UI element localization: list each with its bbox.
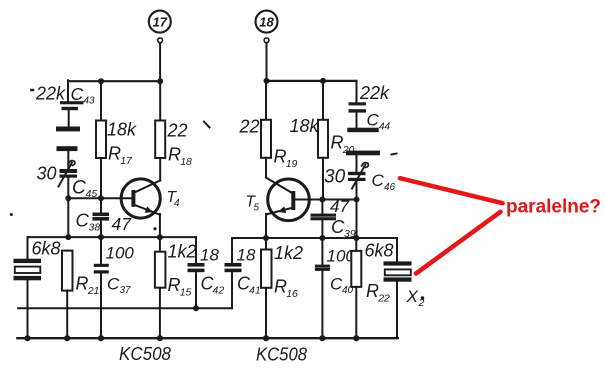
capacitor C44 <box>349 102 367 112</box>
svg-text:39: 39 <box>344 228 356 240</box>
svg-text:R: R <box>366 281 379 301</box>
node rail C37 <box>98 335 104 341</box>
svg-text:47: 47 <box>330 197 349 216</box>
label R22 <box>366 281 390 305</box>
label T5 <box>246 194 260 214</box>
label C41 <box>237 274 261 297</box>
node T4 emitter / R15 <box>157 234 163 240</box>
svg-text:44: 44 <box>379 122 391 133</box>
stray dot left <box>10 213 13 216</box>
svg-text:37: 37 <box>120 285 132 296</box>
capacitor C41 <box>225 238 242 308</box>
crystal X1 <box>14 237 42 338</box>
capacitor C40 <box>315 238 330 338</box>
resistor R19 <box>261 81 271 178</box>
capacitor (unlabeled, series) left <box>56 127 80 152</box>
node T5 emitter / R16 <box>263 235 269 241</box>
capacitor C38 <box>93 198 110 237</box>
label R17 <box>108 144 133 168</box>
transistor T4 <box>121 179 160 218</box>
svg-text:KC508: KC508 <box>256 345 307 365</box>
svg-text:15: 15 <box>180 287 192 299</box>
node junction terminal18/R19 <box>264 78 270 84</box>
wire terminal18 to top rail <box>266 43 268 81</box>
wire right column top <box>356 81 358 103</box>
svg-text:17: 17 <box>120 155 133 167</box>
svg-text:18: 18 <box>200 246 219 265</box>
svg-text:41: 41 <box>249 285 261 297</box>
wire C45 to base node <box>67 178 69 198</box>
wire right column to emitter line <box>356 181 358 238</box>
node R20 bottom / C39 top <box>319 197 325 203</box>
wire left top rail <box>68 80 160 82</box>
label X2 <box>406 287 425 309</box>
svg-text:22k: 22k <box>35 84 66 104</box>
wire between C43 and cap2 <box>68 110 70 126</box>
svg-text:C: C <box>367 111 380 130</box>
resistor R18 <box>155 81 165 180</box>
label R15 <box>168 275 192 299</box>
node rail C40 <box>319 335 325 341</box>
label R21 <box>76 274 100 298</box>
wire bottom rail <box>17 337 397 339</box>
node base line right corner <box>354 197 360 203</box>
wire between C44 and cap2 right <box>356 113 358 128</box>
svg-text:C: C <box>76 210 90 231</box>
capacitor C43 <box>60 101 84 110</box>
node junction terminal17/R18 <box>157 78 163 84</box>
wire base line T4 <box>68 197 133 199</box>
trimmer capacitor C45 <box>59 161 78 187</box>
annotation red line to X2 <box>416 212 501 274</box>
node junction R17 top <box>98 78 104 84</box>
svg-text:R: R <box>168 275 181 295</box>
svg-text:6k8: 6k8 <box>365 241 394 261</box>
svg-text:30: 30 <box>324 167 346 188</box>
capacitor (unlabeled, series) right <box>346 128 380 156</box>
svg-text:19: 19 <box>286 158 298 170</box>
svg-text:47: 47 <box>112 214 133 234</box>
node C39/C40 <box>319 235 325 241</box>
wire left column to emitter line <box>67 198 69 237</box>
label C46 <box>372 171 396 193</box>
svg-text:18: 18 <box>180 156 192 168</box>
resistor R15 <box>155 237 166 338</box>
terminal 18 <box>256 11 278 43</box>
label C42 <box>201 274 225 297</box>
svg-text:X: X <box>406 287 419 306</box>
node rail X1 <box>24 335 30 341</box>
node rail R16 <box>263 335 269 341</box>
stray dot near emitter <box>153 227 156 230</box>
node rail R22 <box>353 335 359 341</box>
svg-text:R: R <box>76 274 89 294</box>
node R17 bottom / C38 top <box>98 195 104 201</box>
capacitor C39 <box>311 200 337 239</box>
node rail R21 <box>64 335 70 341</box>
resistor R22 <box>351 238 361 338</box>
resistor R20 <box>318 81 328 200</box>
svg-text:18k: 18k <box>107 120 137 140</box>
svg-text:6k8: 6k8 <box>32 239 61 259</box>
stray dot X2 <box>421 296 425 300</box>
wire terminal17 to top rail <box>159 43 161 81</box>
wire T5 emitter down <box>265 214 267 238</box>
wire base line T5 <box>294 199 357 201</box>
svg-text:5: 5 <box>254 203 260 214</box>
capacitor C37 <box>94 237 109 338</box>
svg-text:42: 42 <box>213 285 225 297</box>
svg-text:100: 100 <box>106 244 135 263</box>
svg-text:30: 30 <box>37 164 57 184</box>
wire below cap2 <box>67 151 69 169</box>
svg-text:4: 4 <box>174 198 180 209</box>
svg-text:46: 46 <box>384 182 396 193</box>
annotation red line to C46 <box>400 178 503 203</box>
svg-text:C: C <box>71 84 84 104</box>
node column/R22 <box>353 235 359 241</box>
svg-text:22k: 22k <box>359 83 390 103</box>
label R20 <box>331 133 355 157</box>
resistor R17 <box>96 81 106 198</box>
svg-text:18: 18 <box>259 15 274 30</box>
svg-text:C: C <box>372 171 385 190</box>
node junction R20 top <box>320 78 326 84</box>
svg-text:R: R <box>108 144 121 164</box>
wire emitter line right (y238) <box>232 237 397 239</box>
trimmer capacitor C46 <box>348 163 368 189</box>
svg-text:21: 21 <box>87 285 100 297</box>
label R18 <box>168 145 192 169</box>
node C38/C37 <box>98 234 104 240</box>
wire right top rail <box>267 80 357 82</box>
label C44 <box>367 111 391 133</box>
node base line left corner <box>65 195 71 201</box>
wire left column top <box>67 80 69 101</box>
label R16 <box>274 277 298 301</box>
svg-text:22: 22 <box>239 117 260 137</box>
svg-text:C: C <box>331 216 345 237</box>
label C37 <box>107 275 131 297</box>
svg-text:17: 17 <box>153 15 168 30</box>
crystal X2 <box>384 238 412 338</box>
node column/R21 <box>65 234 71 240</box>
wire coupling line (y308) <box>18 307 232 309</box>
wire T4 emitter down <box>159 214 161 237</box>
svg-text:22: 22 <box>377 293 390 305</box>
svg-text:KC508: KC508 <box>119 344 171 364</box>
svg-text:R: R <box>331 133 344 153</box>
label C45 <box>72 178 97 201</box>
label C40 <box>330 275 354 297</box>
resistor R21 <box>62 251 73 339</box>
capacitor C42 <box>188 237 205 308</box>
svg-text:22: 22 <box>167 121 188 141</box>
transistor T5 <box>266 178 309 221</box>
svg-text:1k2: 1k2 <box>274 243 303 263</box>
stray mark diagonal <box>204 122 210 128</box>
label C39 <box>331 216 356 240</box>
node rail R15 <box>157 335 163 341</box>
wire below cap2 right <box>356 155 358 172</box>
node C42 bottom <box>193 305 199 311</box>
wire emitter line left (y237) <box>28 236 197 238</box>
terminal 17 <box>149 11 171 43</box>
svg-text:18k: 18k <box>290 116 320 136</box>
svg-text:43: 43 <box>84 96 96 107</box>
svg-text:38: 38 <box>89 222 101 234</box>
label 22k left <box>30 84 66 104</box>
svg-text:R: R <box>274 277 287 297</box>
svg-text:1k2: 1k2 <box>168 242 197 262</box>
svg-text:16: 16 <box>286 288 298 300</box>
label R19 <box>274 147 298 171</box>
stray dash right <box>392 154 397 155</box>
svg-text:C: C <box>107 275 120 294</box>
svg-text:R: R <box>168 145 181 165</box>
label C43 <box>71 84 96 107</box>
label T4 <box>167 189 181 209</box>
svg-text:C: C <box>72 178 86 199</box>
label C38 <box>76 210 101 234</box>
resistor R16 <box>261 238 272 338</box>
svg-text:R: R <box>274 147 287 167</box>
svg-text:18: 18 <box>237 246 256 265</box>
svg-text:paralelne?: paralelne? <box>506 197 601 218</box>
